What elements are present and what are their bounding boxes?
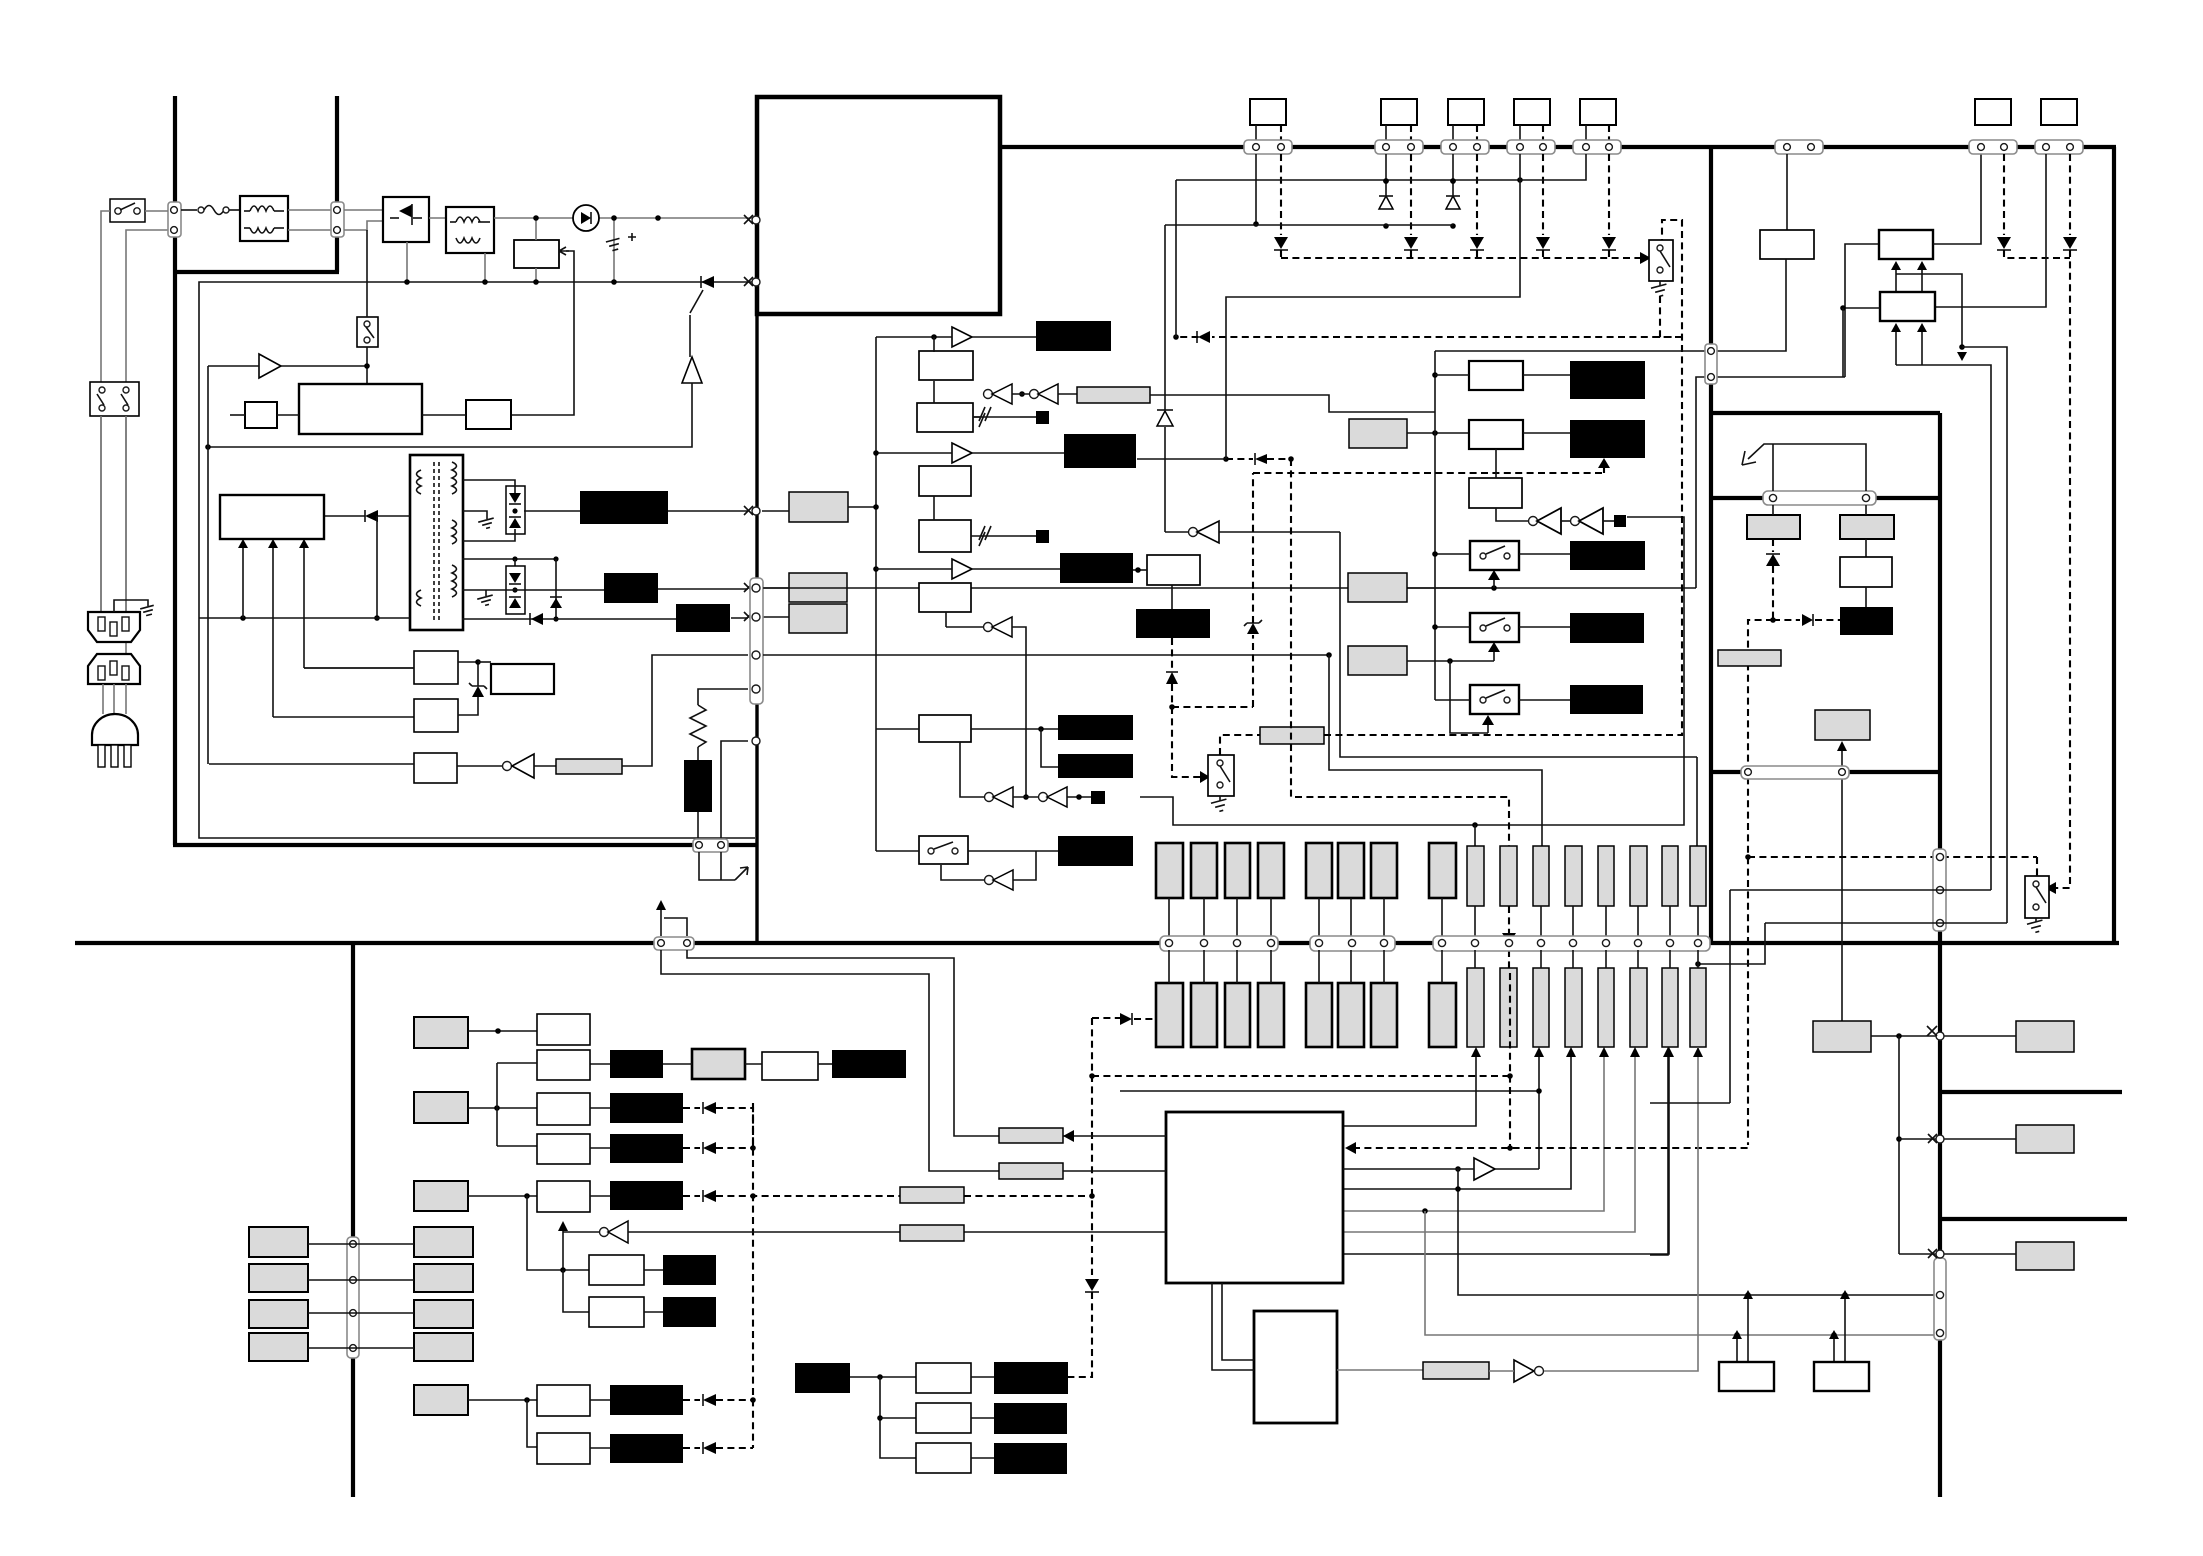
wire: U22 to B2 (1523, 432, 1570, 434)
gray box: input label G1 (1349, 419, 1407, 448)
switch row: S23 (1435, 685, 1570, 714)
connector: edge pin mid (752, 651, 760, 659)
transformer T902 chopper (446, 207, 494, 253)
connector J902 (331, 202, 344, 237)
wire: bridge output (429, 217, 446, 219)
dashed: B24 diode long run (683, 1190, 1095, 1202)
dashed: up arrow into B2 bottom (1253, 458, 1610, 473)
connector: X pin on 1940 at 1139 (1899, 1134, 2016, 1143)
black box: output label 1 (580, 491, 668, 524)
wire: to board edge connector (697, 812, 699, 840)
wire: flying lead lower W6 (1338, 983, 1364, 1047)
wire: output 1 to edge connector (524, 510, 580, 512)
wire: P1 pin1 drop (1255, 154, 1257, 224)
gray box: harness label out1 (789, 492, 848, 522)
wire: rail588 riser to connector pin (1696, 377, 1845, 588)
black box: label K2 (1060, 553, 1133, 583)
box U23 (1469, 478, 1522, 508)
box: W25 (537, 1181, 590, 1212)
black box: B21 (832, 1050, 906, 1078)
black box: label in mid-right board (1840, 607, 1893, 635)
black box: B32 (994, 1403, 1067, 1434)
wire: P5 pin1 over to P4 (1520, 154, 1586, 180)
ground: inlet earth stub (114, 600, 156, 617)
transistor Q901 trigger triangle (208, 315, 702, 447)
wire: y923 run (1765, 922, 2007, 924)
connector: ribbon strip 1 (1160, 936, 1278, 951)
wire: flying lead upper W8 (1429, 843, 1456, 898)
plug P5 (1573, 99, 1621, 154)
wire: right fuse chain down (1840, 539, 1892, 607)
box U1 (919, 351, 973, 380)
box: W28 (537, 1385, 590, 1416)
board: right board right edge (2112, 147, 2116, 943)
box U2 (917, 403, 973, 432)
wire: arrowhead at gray riser top (1693, 1047, 1703, 1057)
wire: P7 pin1 down to block C (1935, 154, 2046, 307)
box U5 (919, 583, 971, 612)
black box: label B3 (1570, 541, 1645, 570)
dashed horizontal upper from row1 (1226, 458, 1253, 460)
wire: flying lead upper N5 (1598, 846, 1614, 906)
wire: block A to edge connector pins (1435, 259, 1786, 351)
box: right board block B (1879, 230, 1933, 259)
wire: R41 to IC with arrow (1063, 1130, 1166, 1142)
wire: flying lead upper N6 (1630, 846, 1647, 906)
wire: flying lead upper W5 (1306, 843, 1332, 898)
connector: strip on divider x353 (347, 1237, 359, 1358)
switch S901 mains switch (110, 199, 145, 222)
wire: inlet to plug (102, 684, 104, 714)
dashed: long return into IC (1345, 1142, 1748, 1154)
box U6 (919, 715, 971, 742)
dashed net: branch to left bus y=337 (1212, 336, 1682, 338)
dashed: x1748 lower run with junction (1745, 854, 2037, 876)
black box: mid K7 left of U11 (1064, 434, 1136, 468)
wire: P4 pin1 drop (1519, 154, 1521, 180)
gray box: label on dashed net (1260, 727, 1324, 744)
box U11 (1133, 555, 1200, 609)
box: W23 (537, 1093, 590, 1125)
diode pair D905 secondary top (463, 480, 525, 541)
switch S4 right bottom (2025, 876, 2049, 934)
wire: G24 chain (468, 1397, 537, 1447)
wire: G23 chain (468, 1193, 537, 1199)
inverter chain lower (960, 742, 1105, 807)
wire: flying lead lower N1 (1467, 968, 1484, 1047)
board: mid-right board divider (1711, 496, 1940, 500)
black box: B22 (610, 1093, 683, 1123)
black box: label K3 (1058, 715, 1133, 740)
connector: X pin big box left edge top (744, 215, 760, 224)
gray box: G23 (414, 1181, 468, 1211)
wire: up arrow into S21 from gray G2 (1407, 570, 1500, 591)
box: jack label W20 (537, 1014, 590, 1045)
connector: ribbon strip 3 (1433, 936, 1710, 951)
wire: riser x1668 column16 (1650, 1053, 1668, 1255)
wire: long rail y=655 to center (763, 654, 1329, 656)
wire: vertical x=876 feed (875, 337, 877, 851)
black box: label K1 (1036, 321, 1111, 351)
wire: block B arrows from below (1891, 261, 1927, 310)
gray box: resistor R903 (556, 759, 622, 774)
plug P7 top right (2035, 99, 2083, 154)
connector: edge pin out2 (744, 583, 760, 592)
connector: mid-right bottom edge pins (1741, 766, 1849, 779)
wire: P2 pin1 with zener to bus (1379, 154, 1393, 229)
dashed: B27 diode out (683, 1394, 756, 1406)
box: W26 (589, 1255, 644, 1285)
wire: U904 inputs with arrows (238, 539, 414, 717)
switch row: S22 (1432, 613, 1570, 642)
wire: flying lead lower N8 (1690, 968, 1706, 1047)
symbol: small black square terminator (1614, 515, 1626, 527)
wire: risers from IC to lower leads (1343, 1047, 1674, 1254)
switch S1 mute (876, 836, 1058, 864)
wire: bottom primary bus (199, 617, 410, 619)
box: right board block A (1760, 230, 1814, 259)
switch S903 double pole (90, 382, 139, 416)
wire: switch to connector (145, 210, 168, 212)
switch S902 standby relay (357, 230, 378, 384)
dashed: P7 pin2 long drop (2045, 154, 2077, 894)
wire: flying lead lower N4 (1565, 968, 1582, 1047)
dashed: P4 pin2 to diode (1536, 154, 1550, 258)
wire: flying lead upper N7 (1662, 846, 1678, 906)
dashed: B23 diode out (683, 1142, 756, 1154)
ground: primary ground symbol (606, 218, 636, 282)
box: right board block C (1880, 292, 1935, 321)
wire: flying lead lower W8 (1429, 983, 1456, 1047)
board: right lower branch bar 2 (1940, 1217, 2127, 1221)
wire: filter to connector J902 (288, 209, 331, 211)
gray box: fuse label right (1840, 515, 1894, 539)
diode D40 dashed into ribbon W1 (1120, 1013, 1156, 1025)
board: power supply board outline left edge (173, 96, 177, 845)
wire: long riser into label (1837, 741, 1847, 1021)
gray box: right G13 (2016, 1242, 2074, 1270)
board: right inner vertical edge (1938, 413, 1942, 1497)
resistor R901 box (514, 218, 569, 282)
dashed: vertical x1092 (1068, 1018, 1120, 1377)
wire: block C arrows from below (1891, 323, 1927, 365)
gray box: label on A20 line (900, 1225, 964, 1241)
black box: label B2 (1570, 420, 1645, 458)
gray box: bottom right G10 (2016, 1021, 2074, 1052)
box: W29 (537, 1433, 590, 1464)
wire: flying lead lower N6 (1630, 968, 1647, 1047)
inverter pair mid (973, 384, 1077, 417)
dashed net: from K6 down through diode (1166, 473, 1262, 783)
op-amp A2 buffer (876, 559, 1060, 579)
black box: photo device (684, 760, 712, 812)
wire: G3 to arrows (1407, 642, 1500, 733)
box: W24 (537, 1134, 590, 1164)
gray box: G22 (414, 1092, 468, 1123)
board: mid-right board bottom edge (1711, 770, 1940, 774)
bottom-left: 4 gray jacks column A (249, 1227, 308, 1361)
gray box: right G12 (2016, 1125, 2074, 1153)
ground: hatch after U4 (971, 526, 1049, 546)
resistor R904 vertical zigzag (690, 689, 748, 760)
wire: J910 stub arrow up (656, 900, 687, 936)
wire: flying lead lower N7 (1662, 968, 1678, 1047)
wire: jumper arrow inside mid-right board (1742, 444, 1866, 491)
box: sub regulator U905 (304, 651, 458, 684)
gray box: label above arrow (1815, 710, 1870, 740)
wire: flying lead upper N8 (1690, 846, 1706, 906)
wire: rail757 long (wire A) from inverter chain (1340, 532, 1697, 757)
wire: U23 down to inverter pair (1496, 508, 1529, 521)
gray box: bottom left of divider G11 (1813, 1021, 1871, 1052)
wire: flying lead lower W5 (1306, 983, 1332, 1047)
wire: block B right to P6 pin (1933, 154, 1981, 244)
box: W31 (916, 1403, 971, 1433)
wire: G22 to chain (468, 1063, 537, 1146)
box: opto U908 (209, 753, 457, 783)
wire: primary return (376, 516, 378, 618)
wire: lower secondary mid tap with ground (462, 590, 604, 607)
black box: B20 (610, 1050, 663, 1078)
connector: right strip x1940 lower (1934, 1258, 1946, 1340)
connector: AC inlet upper IEC (88, 612, 140, 642)
connector: ribbon strip 2 (1310, 936, 1395, 951)
wire: x1176 vertical (1175, 180, 1177, 337)
box U903 feedback block (422, 400, 511, 429)
dashed: B22 diode out (683, 1102, 753, 1148)
black box: label K5 (1058, 836, 1133, 866)
box: speaker terminal right (1814, 1362, 1869, 1391)
board: main board top edge (1000, 145, 2116, 149)
top connector row: plug P1 (1244, 99, 1292, 154)
transformer T903 main (410, 455, 463, 630)
gray box: harness label out2 (789, 573, 847, 602)
box: W22 (537, 1050, 590, 1080)
wire: harness to standby rail (848, 506, 876, 508)
switch S3 top right with ground (1649, 240, 1684, 337)
wire: flying lead lower N3 (1533, 968, 1549, 1047)
op-amp U901 drive buffer (208, 354, 370, 378)
board: power supply board top-right partition (173, 96, 339, 272)
black box: B28 (610, 1434, 683, 1463)
wire: inverter U10 top left cluster (1150, 225, 1435, 543)
IC U31 main microcontroller (1166, 1112, 1343, 1283)
box: W32 (916, 1443, 971, 1473)
ground: hatch after U2 (973, 407, 1049, 427)
black box: B26 (663, 1297, 716, 1327)
switch S2 with ground (1208, 755, 1234, 813)
box: W27 (589, 1297, 644, 1327)
connector: on right board left edge (1705, 344, 1717, 384)
box U3 (919, 466, 971, 496)
line filter T901 (240, 196, 288, 241)
IC U902 power controller (299, 384, 422, 434)
wire: jack pair links (308, 1244, 414, 1348)
wire: y890 run (1730, 889, 1991, 891)
board: bottom board divider (351, 943, 355, 1497)
box: W21 (762, 1052, 818, 1080)
wire: arrow up into W25 + inverter A20 (558, 1221, 1166, 1270)
ground: transformer center tap (462, 571, 464, 573)
gray jacks column B right of divider (414, 1227, 473, 1361)
wire: output 3 run (731, 617, 748, 619)
black box: output label 3 (676, 604, 730, 632)
wire: U31 to U32 links (1212, 1283, 1254, 1370)
diode D904 into transformer (324, 510, 410, 522)
black box: B23 (610, 1134, 683, 1163)
wire: flying lead upper N3 (1533, 846, 1549, 906)
wire: J910 pin1 to gray resistor R42 (661, 950, 999, 1171)
wire: flying lead upper N1 (1467, 846, 1484, 906)
wire: flying lead upper W4 (1258, 843, 1284, 898)
connector: AC plug (92, 714, 138, 767)
wire: flying lead lower W3 (1225, 983, 1250, 1047)
gray box: resistor R31 (1423, 1362, 1489, 1379)
dashed: P1 pin2 to diode (1274, 154, 1288, 258)
gray box: resistor R11 (1077, 387, 1150, 403)
inverter A23b (1571, 508, 1615, 534)
black box: B31 (994, 1362, 1068, 1394)
wire: flying lead lower W2 (1191, 983, 1217, 1047)
wire: R903 up to bus (622, 655, 748, 766)
wire: gray y1335 run (1425, 1211, 1940, 1338)
wire: R42 to IC (1063, 1170, 1166, 1172)
diode pair D906 secondary lower (462, 556, 559, 614)
wire: P3 pin1 with zener (1446, 154, 1460, 229)
wire: x1520 down to y297 then left (1226, 180, 1520, 459)
gray box: resistor R42 (999, 1163, 1063, 1179)
wire: long bus y=825 (1140, 517, 1684, 825)
wire: x1730 to left stub (1650, 1102, 1730, 1104)
connector: edge pin fb (752, 685, 760, 693)
black box: label B4 (1570, 613, 1644, 643)
diode D908 on low rail (462, 613, 676, 625)
connector: board edge strip center (750, 578, 763, 704)
board: mid-right board top edge (1711, 411, 1940, 415)
gray box: label on dashed R24 (900, 1187, 964, 1203)
dashed vertical main x=1291 (1291, 459, 1509, 847)
right board: connector on top edge (1775, 140, 1823, 230)
wire: U32 output chain (1337, 1369, 1423, 1371)
node: gate line junction (205, 444, 211, 450)
wire: bridge negative drop (406, 242, 408, 282)
wire: A drop into column 17 (1696, 757, 1698, 846)
wire: G11-G10 link through connector (1871, 1026, 2016, 1040)
gray box: fuse label left (1747, 515, 1800, 539)
dashed bus y=258 (1281, 257, 1640, 259)
connector: X pin big box left edge lower (744, 277, 760, 286)
wire: long rail y=588 (763, 587, 1696, 589)
wire: flying lead upper W2 (1191, 843, 1217, 898)
wire: flying lead upper W3 (1225, 843, 1250, 898)
diode D902 LED in circle (573, 205, 599, 231)
wire: flying lead upper W1 (1156, 843, 1183, 898)
wire: flying lead upper W7 (1371, 843, 1397, 898)
wire: DC rail (494, 217, 756, 219)
box U32 sub block (1254, 1311, 1337, 1423)
dashed: P2 pin2 to diode (1404, 154, 1418, 258)
dashed: left fuse down through diode (1748, 539, 1840, 1145)
board: right board left edge (1709, 147, 1713, 943)
wire: G20 to white box chain (468, 1028, 537, 1034)
wire: primary ground bus (thin inner line) (199, 282, 756, 838)
box U21 (1469, 361, 1523, 390)
dashed arrow at connector (1508, 906, 1510, 938)
board: power supply board bottom edge (173, 843, 758, 847)
gray box: G24 (414, 1385, 468, 1415)
op-amp A31 buffer (1343, 1158, 1539, 1180)
dashed: P6 pin2 diode to bus258 (1997, 154, 2070, 258)
wire: flying lead lower N2 (1500, 968, 1517, 1047)
black box: B27 (610, 1385, 683, 1415)
wire: connector pins to fuse labels (1772, 505, 1774, 515)
board: right lower branch bar 1 (1940, 1090, 2122, 1094)
wire: G1 to U21 (1407, 432, 1469, 434)
bridge rectifier D901 (383, 197, 429, 242)
wire: lower pin to block B (1845, 244, 1879, 377)
wire: output 2 run (658, 588, 748, 590)
wire: K7 to x1227 (1137, 458, 1226, 460)
box U22 (1469, 420, 1523, 449)
connector J901 on board edge (168, 202, 181, 237)
wire: U22 down to U23 (1495, 449, 1497, 478)
dashed: P3 pin2 to diode (1470, 154, 1484, 258)
wire: stub to column 9 (1474, 825, 1476, 847)
connector: AC inlet lower IEC (88, 654, 140, 684)
gray box: resistor R41 (999, 1128, 1063, 1143)
gray box: input label G2 (1348, 573, 1407, 602)
wire: rail 655 corner down and right (wire B) (1329, 655, 1542, 847)
mid-right board: connector on divider y=498 (1763, 491, 1876, 505)
wire: x1458 vertical to y1295 (1458, 1169, 1940, 1295)
thyristor D903 on ground rail (690, 276, 714, 313)
connector: edge pin out1 (744, 506, 760, 515)
wire: B30 to white chain (850, 1374, 916, 1458)
fuse F901 (181, 206, 240, 215)
wire: J910 pin2 to gray resistor R41 (687, 950, 999, 1136)
wire: P1 pin1 y180 bus (1176, 179, 1520, 181)
plug P2 (1375, 99, 1423, 154)
resistor R902 (230, 402, 299, 428)
gray box: G21 thick (692, 1049, 745, 1079)
op-amp A2b buffer mid (873, 443, 1064, 463)
wire: x1899 vertical (1898, 1036, 1900, 1254)
inverter U909 (457, 754, 556, 778)
box: speaker terminal left (1719, 1362, 1774, 1391)
wire: connector to bridge (344, 209, 383, 211)
box: sub regulator U906 (414, 699, 458, 732)
plug P6 top right (1969, 99, 2017, 154)
wire: flying lead upper N2 (1500, 846, 1517, 906)
black box: label B1 (1570, 361, 1645, 399)
wire: standby rail vertical (207, 366, 209, 764)
wire: transformer bottom drop (484, 253, 486, 282)
wire: mains neutral (126, 230, 168, 612)
connector: strip on x1940 (1933, 849, 1946, 931)
wire: switch to AC inlet (100, 416, 102, 612)
switch row: S21 (1432, 541, 1570, 570)
dashed net: S2 top to gray label (1220, 735, 1260, 755)
wire: y=225 bus from P1 (1165, 224, 1453, 226)
wire: S1 bottom to inverter A7 (941, 851, 1036, 890)
board: main IC block (large thick box top center) (757, 97, 1000, 314)
black box: B33 (994, 1443, 1067, 1474)
wire: flying lead upper W6 (1338, 843, 1364, 898)
black box: B25 (663, 1255, 716, 1285)
wire: flying lead lower N5 (1598, 968, 1614, 1047)
black box: output label 2 (604, 573, 658, 603)
wire: feedback from error amp to R901 (511, 251, 574, 415)
